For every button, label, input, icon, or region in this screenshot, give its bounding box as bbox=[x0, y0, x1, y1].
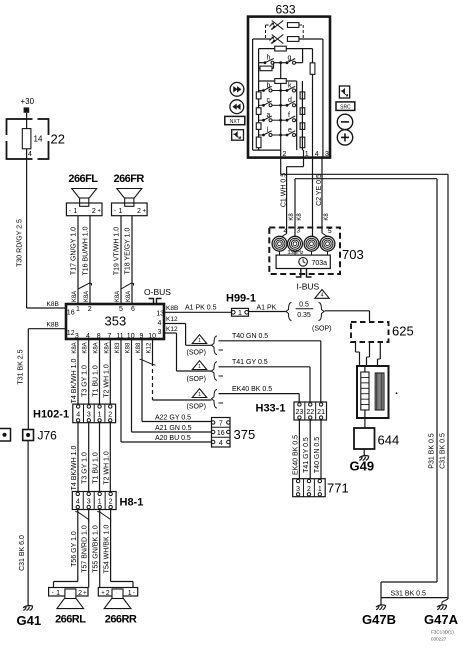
svg-text:625: 625 bbox=[392, 324, 414, 339]
svg-text:T55 GN/BK 1.0: T55 GN/BK 1.0 bbox=[93, 525, 100, 573]
svg-text:266FR: 266FR bbox=[114, 173, 145, 185]
svg-text:(SOP): (SOP) bbox=[312, 326, 331, 333]
svg-text:5: 5 bbox=[328, 228, 332, 235]
svg-text:P31 BK 0.5: P31 BK 0.5 bbox=[429, 433, 436, 469]
svg-text:1: 1 bbox=[198, 338, 201, 344]
svg-text:T19 VT/WH 1.0: T19 VT/WH 1.0 bbox=[114, 227, 121, 275]
svg-text:1: 1 bbox=[73, 208, 77, 215]
svg-text:T18 YE/GY 1.0: T18 YE/GY 1.0 bbox=[125, 227, 132, 274]
svg-text:1: 1 bbox=[98, 499, 102, 506]
svg-text:T1 BU 1.0: T1 BU 1.0 bbox=[93, 452, 100, 484]
svg-text:22: 22 bbox=[51, 132, 65, 147]
svg-text:F3C13D(1): F3C13D(1) bbox=[431, 630, 454, 635]
svg-text:353: 353 bbox=[105, 314, 127, 329]
svg-text:S31 BK 0.5: S31 BK 0.5 bbox=[391, 590, 427, 597]
svg-text:T41 GY 0.5: T41 GY 0.5 bbox=[232, 359, 268, 366]
svg-text:1: 1 bbox=[128, 590, 132, 597]
svg-text:3: 3 bbox=[296, 486, 300, 493]
svg-text:A1 PK: A1 PK bbox=[257, 305, 277, 312]
svg-text:h: h bbox=[267, 55, 271, 62]
svg-text:3: 3 bbox=[87, 412, 91, 419]
svg-text:3: 3 bbox=[325, 151, 329, 158]
svg-text:G47A: G47A bbox=[424, 612, 459, 627]
svg-text:T3 GY 1.0: T3 GY 1.0 bbox=[82, 452, 89, 484]
svg-text:-: - bbox=[69, 209, 71, 215]
svg-text:K8B: K8B bbox=[47, 301, 59, 308]
svg-text:NXT: NXT bbox=[230, 119, 240, 125]
svg-text:K88: K88 bbox=[136, 342, 142, 353]
svg-text:1: 1 bbox=[98, 412, 102, 419]
svg-text:K8A: K8A bbox=[115, 291, 121, 302]
svg-text:T4 BK/WH 1.0: T4 BK/WH 1.0 bbox=[71, 359, 78, 404]
svg-text:K12: K12 bbox=[166, 326, 178, 333]
svg-text:T3 GY 1.0: T3 GY 1.0 bbox=[82, 365, 89, 397]
svg-text:g: g bbox=[288, 55, 292, 62]
svg-text:11: 11 bbox=[116, 333, 123, 340]
svg-text:22: 22 bbox=[306, 409, 314, 416]
svg-text:771: 771 bbox=[327, 481, 349, 496]
svg-text:+: + bbox=[143, 209, 147, 215]
svg-text:1: 1 bbox=[198, 392, 201, 398]
svg-text:G41: G41 bbox=[17, 613, 42, 628]
svg-text:C31 BK 0.5: C31 BK 0.5 bbox=[440, 433, 447, 469]
svg-text:2: 2 bbox=[106, 590, 110, 597]
svg-text:A20 BU 0.5: A20 BU 0.5 bbox=[155, 435, 191, 442]
svg-text:K8A: K8A bbox=[84, 291, 90, 302]
svg-text:8: 8 bbox=[97, 333, 101, 340]
svg-text:T56 GY 1.0: T56 GY 1.0 bbox=[71, 531, 78, 567]
svg-text:1: 1 bbox=[76, 306, 80, 313]
svg-text:5: 5 bbox=[119, 306, 123, 313]
svg-text:1: 1 bbox=[119, 208, 123, 215]
svg-text:4: 4 bbox=[86, 333, 90, 340]
svg-text:7: 7 bbox=[219, 420, 223, 427]
svg-text:J76: J76 bbox=[38, 429, 58, 443]
svg-text:H33-1: H33-1 bbox=[256, 403, 286, 415]
svg-text:C1 WH 0.5: C1 WH 0.5 bbox=[280, 173, 287, 207]
svg-text:2: 2 bbox=[108, 412, 112, 419]
svg-text:T17 GN/GY 1.0: T17 GN/GY 1.0 bbox=[71, 227, 78, 275]
svg-text:T16 BU/WH 1.0: T16 BU/WH 1.0 bbox=[83, 226, 90, 275]
svg-text:7: 7 bbox=[108, 333, 112, 340]
svg-text:K8B: K8B bbox=[166, 305, 178, 312]
svg-text:T31 BK 2.5: T31 BK 2.5 bbox=[18, 349, 25, 384]
svg-text:266RL: 266RL bbox=[55, 614, 86, 626]
svg-text:13: 13 bbox=[156, 311, 164, 318]
svg-text:1: 1 bbox=[198, 364, 201, 370]
svg-text:3: 3 bbox=[87, 499, 91, 506]
svg-text:H102-1: H102-1 bbox=[33, 409, 69, 421]
svg-text:T30 RD/GY 2.5: T30 RD/GY 2.5 bbox=[17, 219, 24, 267]
svg-text:4: 4 bbox=[284, 228, 288, 235]
svg-text:T41 GY 0.5: T41 GY 0.5 bbox=[303, 437, 310, 473]
svg-text:4: 4 bbox=[28, 151, 32, 158]
svg-text:EK40 BK 0.5: EK40 BK 0.5 bbox=[292, 435, 299, 475]
svg-text:(SOP): (SOP) bbox=[187, 404, 206, 411]
svg-text:+: + bbox=[97, 209, 101, 215]
svg-text:C31 BK 6.0: C31 BK 6.0 bbox=[19, 535, 26, 571]
svg-text:A22 GY 0.5: A22 GY 0.5 bbox=[155, 415, 191, 422]
svg-text:4: 4 bbox=[315, 151, 319, 158]
svg-text:1: 1 bbox=[56, 590, 60, 597]
svg-text:1: 1 bbox=[318, 486, 322, 493]
svg-text:4: 4 bbox=[219, 440, 223, 447]
svg-text:3: 3 bbox=[158, 329, 162, 336]
svg-text:K8A: K8A bbox=[94, 342, 100, 353]
svg-text:644: 644 bbox=[378, 433, 400, 448]
svg-text:16: 16 bbox=[217, 430, 225, 437]
svg-text:10: 10 bbox=[127, 333, 135, 340]
svg-text:-: - bbox=[114, 209, 116, 215]
svg-text:EK40 BK 0.5: EK40 BK 0.5 bbox=[232, 386, 272, 393]
svg-text:030227: 030227 bbox=[431, 637, 447, 642]
svg-text:4: 4 bbox=[76, 412, 80, 419]
svg-text:T2 WH 1.0: T2 WH 1.0 bbox=[103, 364, 110, 398]
svg-text:A21 GN 0.5: A21 GN 0.5 bbox=[155, 425, 192, 432]
svg-text:K8A: K8A bbox=[72, 342, 78, 353]
svg-text:-: - bbox=[133, 591, 135, 597]
svg-text:266FL: 266FL bbox=[68, 173, 98, 185]
svg-text:-: - bbox=[52, 591, 54, 597]
svg-text:T40 GN 0.5: T40 GN 0.5 bbox=[232, 333, 268, 340]
svg-text:2: 2 bbox=[92, 208, 96, 215]
svg-text:+30: +30 bbox=[21, 97, 35, 106]
svg-text:K12: K12 bbox=[166, 316, 178, 323]
svg-text:K8A: K8A bbox=[72, 291, 78, 302]
svg-text:T1 BU 1.0: T1 BU 1.0 bbox=[93, 365, 100, 397]
svg-text:A1 PK 0.5: A1 PK 0.5 bbox=[185, 305, 217, 312]
svg-text:H8-1: H8-1 bbox=[120, 497, 144, 509]
svg-text:3: 3 bbox=[75, 333, 79, 340]
svg-text:1: 1 bbox=[238, 310, 242, 317]
svg-text:K12: K12 bbox=[147, 342, 153, 353]
svg-text:SRC: SRC bbox=[340, 104, 351, 110]
svg-text:2: 2 bbox=[283, 151, 287, 158]
svg-text:2: 2 bbox=[109, 499, 113, 506]
svg-text:21: 21 bbox=[317, 409, 325, 416]
svg-text:+: + bbox=[83, 591, 87, 597]
svg-text:266RR: 266RR bbox=[105, 614, 137, 626]
svg-text:2: 2 bbox=[88, 306, 92, 313]
svg-text:f: f bbox=[288, 112, 290, 119]
svg-text:0.35: 0.35 bbox=[297, 312, 311, 319]
svg-text:703: 703 bbox=[342, 247, 364, 262]
svg-text:G47B: G47B bbox=[362, 612, 396, 627]
svg-text:(SOP): (SOP) bbox=[187, 376, 206, 383]
svg-text:1: 1 bbox=[305, 151, 309, 158]
svg-text:K88: K88 bbox=[126, 342, 132, 353]
svg-text:633: 633 bbox=[276, 3, 296, 17]
svg-text:9: 9 bbox=[139, 333, 143, 340]
svg-text:K8B: K8B bbox=[47, 322, 59, 329]
svg-text:T4 BK/WH 1.0: T4 BK/WH 1.0 bbox=[71, 446, 78, 491]
svg-text:K83: K83 bbox=[115, 342, 121, 353]
svg-text:4: 4 bbox=[76, 499, 80, 506]
svg-text:I-BUS: I-BUS bbox=[297, 282, 320, 292]
svg-text:G49: G49 bbox=[350, 459, 375, 474]
svg-text:T2 WH 1.0: T2 WH 1.0 bbox=[103, 451, 110, 485]
svg-text:K8: K8 bbox=[289, 213, 295, 221]
svg-text:K8A: K8A bbox=[104, 342, 110, 353]
svg-text:H99-1: H99-1 bbox=[226, 293, 256, 305]
svg-text:14: 14 bbox=[34, 135, 43, 144]
svg-text:4: 4 bbox=[158, 320, 162, 327]
svg-text:T57 BN/RD 1.0: T57 BN/RD 1.0 bbox=[82, 525, 89, 573]
svg-text:4: 4 bbox=[321, 293, 324, 299]
svg-text:23: 23 bbox=[296, 409, 304, 416]
svg-text:2: 2 bbox=[78, 590, 82, 597]
svg-text:375: 375 bbox=[234, 427, 256, 442]
svg-text:K8A: K8A bbox=[126, 291, 132, 302]
svg-text:(SOP): (SOP) bbox=[187, 350, 206, 357]
svg-text:6: 6 bbox=[131, 306, 135, 313]
svg-text:12: 12 bbox=[67, 330, 75, 337]
svg-text:3: 3 bbox=[297, 228, 301, 235]
svg-text:K8A: K8A bbox=[83, 342, 89, 353]
svg-text:K8: K8 bbox=[297, 213, 303, 221]
svg-text:2: 2 bbox=[307, 486, 311, 493]
svg-text:10: 10 bbox=[148, 333, 156, 340]
svg-text:2: 2 bbox=[137, 208, 141, 215]
svg-text:T54 WH/BK 1.0: T54 WH/BK 1.0 bbox=[104, 525, 111, 574]
svg-text:703a: 703a bbox=[312, 260, 328, 267]
svg-text:0.5: 0.5 bbox=[299, 302, 309, 309]
svg-text:+: + bbox=[101, 591, 105, 597]
svg-text:O-BUS: O-BUS bbox=[144, 287, 171, 297]
svg-text:16: 16 bbox=[67, 310, 75, 317]
svg-text:T40 GN 0.5: T40 GN 0.5 bbox=[314, 437, 321, 473]
svg-text:K8: K8 bbox=[324, 213, 330, 221]
